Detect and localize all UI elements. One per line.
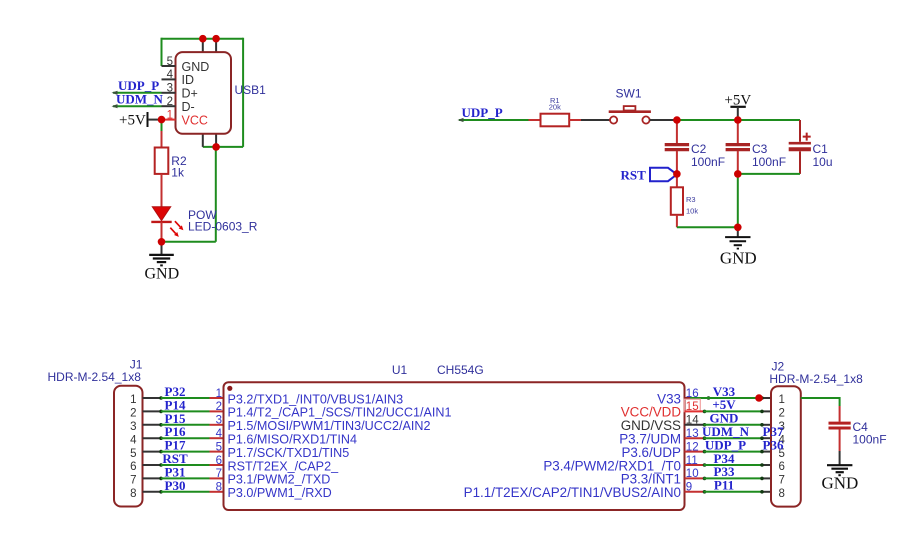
wire: red U1 pin 5 stub <box>210 451 224 453</box>
wire: red U1 pin 2 stub <box>210 410 224 412</box>
wire: black R1 to SW1 <box>581 119 610 121</box>
net label V33 <box>713 384 736 399</box>
wire: red U1 pin 6 stub <box>210 464 224 466</box>
U1 left pin name P3.1 <box>228 473 331 487</box>
wire: green net P31 J1 to U1 <box>161 477 210 479</box>
USB1 pin name ID <box>182 73 195 87</box>
J2 pin number 3 <box>779 421 785 433</box>
svg-text:UDM_N: UDM_N <box>116 92 164 107</box>
wire: green net GND U1 to J2 <box>704 424 763 426</box>
value 10k <box>686 207 698 216</box>
net label P37 <box>763 424 784 439</box>
U1 pin number 1 <box>216 388 222 400</box>
value 10u <box>813 155 833 169</box>
connector J2 designator <box>772 360 785 374</box>
IC U1 body <box>224 382 685 510</box>
connector USB1 body <box>176 52 232 134</box>
wire: U1 pin 16 stub (right) <box>685 396 711 400</box>
junction: SW1/C2 node <box>673 116 681 124</box>
svg-text:100nF: 100nF <box>853 433 887 447</box>
wire: green net P14 J1 to U1 <box>161 410 210 412</box>
svg-text:2: 2 <box>779 408 785 420</box>
wire: green net P32 J1 to U1 <box>161 397 210 399</box>
svg-text:6: 6 <box>216 455 222 467</box>
net label P36 <box>763 437 784 452</box>
label C2 <box>691 142 707 156</box>
svg-text:7: 7 <box>779 475 785 487</box>
U1 left pin name P3.2 <box>228 392 404 406</box>
wire: green net +5V U1 to J2 <box>704 410 763 412</box>
svg-text:7: 7 <box>130 475 136 487</box>
svg-text:+5V: +5V <box>119 113 146 129</box>
junction: +5V / VCC / R2 node <box>158 116 166 124</box>
U1 pin number 6 <box>216 455 222 467</box>
value 100nF (C4) <box>853 433 887 447</box>
junction: C3 bottom node <box>734 170 742 178</box>
wire: green net RST J1 to U1 <box>161 464 210 466</box>
wire: red U1 pin 7 stub <box>210 477 224 479</box>
USB1 pin number 2 <box>167 96 173 108</box>
U1 pin number 7 <box>216 468 222 480</box>
wire: green net P17 J1 to U1 <box>161 451 210 453</box>
svg-text:1: 1 <box>216 388 222 400</box>
ground symbol GND (left) <box>149 242 174 266</box>
label U1 <box>392 363 408 377</box>
U1 pin number 13 <box>686 428 699 440</box>
svg-text:RST/T2EX_/CAP2_: RST/T2EX_/CAP2_ <box>228 459 340 473</box>
svg-text:1k: 1k <box>171 165 185 179</box>
svg-text:C1: C1 <box>813 142 829 156</box>
J2 pin number 5 <box>779 448 785 460</box>
wire: green J2 pin1 to C4 <box>801 397 840 406</box>
J1 pin number 7 <box>130 475 136 487</box>
svg-text:1: 1 <box>779 394 785 406</box>
wire: red RST node to R3 <box>676 174 678 187</box>
wire: green net UDP_P U1 to J2 <box>704 451 763 453</box>
svg-text:5: 5 <box>130 448 136 460</box>
net label P33 <box>714 464 735 479</box>
svg-text:4: 4 <box>167 69 174 81</box>
svg-text:D-: D- <box>182 100 195 114</box>
svg-text:SW1: SW1 <box>616 86 642 100</box>
U1 right pin name P3.4/PWM2/RXD1_/T0 <box>543 458 681 473</box>
wire: U1 pin 10 stub (right) <box>685 477 707 481</box>
wire: U1 pin 14 stub (right) <box>685 423 707 427</box>
J2 pin 3 stub <box>760 423 771 427</box>
wire: green net V33 U1 to J2 <box>690 397 762 399</box>
wire: U1 pin 13 stub (right) <box>685 436 707 440</box>
net GND text (right section) <box>720 249 757 268</box>
J2 pin 4 stub <box>760 436 771 440</box>
J1 pin number 3 <box>130 421 136 433</box>
U1 pin number 16 <box>686 388 699 400</box>
wire: green net P16 J1 to U1 <box>161 437 210 439</box>
U1 right pin name P3.3/INT1 <box>621 472 681 487</box>
svg-text:1: 1 <box>130 394 136 406</box>
wire: U1 pin 11 stub (right) <box>685 463 707 467</box>
net label UDP_P <box>705 437 746 452</box>
wire: red U1 pin 8 stub <box>210 491 224 493</box>
capacitor C2 <box>665 120 689 174</box>
svg-text:RST: RST <box>621 168 647 183</box>
J1 pin 8 stub <box>143 490 163 494</box>
J2 pin number 8 <box>779 488 785 500</box>
switch SW1 (pushbutton) <box>609 106 651 124</box>
net label P15 <box>165 411 186 426</box>
svg-text:3: 3 <box>130 421 136 433</box>
svg-text:UDP_P: UDP_P <box>462 105 503 120</box>
J1 pin number 5 <box>130 448 136 460</box>
svg-text:P11: P11 <box>714 478 734 493</box>
resistor R2 body <box>155 148 169 174</box>
junction: top shell dot left <box>199 35 207 43</box>
svg-text:6: 6 <box>130 461 136 473</box>
wire: green net P15 J1 to U1 <box>161 424 210 426</box>
U1 left pin name P1.4 <box>228 406 452 420</box>
net label +5V <box>712 397 736 412</box>
net UDP_P (left) <box>118 78 159 93</box>
svg-text:8: 8 <box>130 488 136 500</box>
J2 pin 5 stub <box>760 450 771 454</box>
wire: green from shell junction down to LED cathode net <box>215 147 217 242</box>
J1 pin 3 stub <box>143 423 163 427</box>
USB1 pin name VCC <box>182 113 208 127</box>
svg-text:GND: GND <box>145 266 180 283</box>
U1 right pin name GND/VSS <box>621 418 681 433</box>
J1 pin 5 stub <box>143 450 163 454</box>
svg-text:8: 8 <box>779 488 785 500</box>
USB1 pin 5 stub <box>162 65 176 67</box>
U1 pin number 4 <box>216 428 223 440</box>
svg-text:P1.6/MISO/RXD1/TIN4: P1.6/MISO/RXD1/TIN4 <box>228 433 357 447</box>
wire: black SW1 to C2 node <box>650 119 677 121</box>
net UDP_P (right section) <box>462 105 503 120</box>
USB1 pin 2 stub <box>162 105 176 107</box>
value CH554G <box>437 363 484 377</box>
USB1 pin number 3 <box>167 83 173 95</box>
label SW1 <box>616 86 642 100</box>
net label P30 <box>165 478 186 493</box>
wire: red R2 to LED anode <box>161 174 163 208</box>
wire: red U1 pin 4 stub <box>210 437 224 439</box>
value 100nF (C2) <box>691 155 725 169</box>
J2 pin number 1 <box>779 394 785 406</box>
svg-text:8: 8 <box>216 482 222 494</box>
ground symbol GND (J2/C4) <box>827 451 852 475</box>
U1 pin number 9 <box>686 482 692 494</box>
J2 pin number 6 <box>779 461 785 473</box>
svg-text:VCC: VCC <box>182 113 208 127</box>
J1 pin 2 stub <box>143 410 163 414</box>
U1 pin number 11 <box>686 455 698 467</box>
svg-text:R3: R3 <box>686 195 696 204</box>
label C4 <box>853 420 869 434</box>
svg-text:2: 2 <box>216 401 222 413</box>
svg-text:10u: 10u <box>813 155 833 169</box>
svg-text:3: 3 <box>167 83 173 95</box>
U1 right pin name V33 <box>657 391 681 406</box>
U1 pin number 2 <box>216 401 222 413</box>
J1 pin 4 stub <box>143 436 163 440</box>
svg-text:P3.2/TXD1_/INT0/VBUS1/AIN3: P3.2/TXD1_/INT0/VBUS1/AIN3 <box>228 392 404 406</box>
wire: red U1 pin 1 stub <box>210 397 224 399</box>
U1 pin number 12 <box>686 441 699 453</box>
svg-text:5: 5 <box>167 56 173 68</box>
svg-text:4: 4 <box>216 428 223 440</box>
connector J1 value HDR-M-2.54_1x8 <box>48 370 142 384</box>
net UDM_N (left) <box>116 92 164 107</box>
label R3 <box>686 195 696 204</box>
wire: green net P30 J1 to U1 <box>161 491 210 493</box>
junction: bottom shell dot <box>212 143 220 151</box>
junction: GND node right section <box>734 224 742 232</box>
wire: green UDM_N to USB pin 2 <box>112 104 162 108</box>
svg-text:P1.1/T2EX/CAP2/TIN1/VBUS2/AIN0: P1.1/T2EX/CAP2/TIN1/VBUS2/AIN0 <box>464 485 681 500</box>
J1 pin 6 stub <box>143 463 163 467</box>
wire: red LED cathode to ground node <box>161 222 163 242</box>
capacitor C1 (polarized) <box>789 120 811 174</box>
wire: green UDP_P to USB pin 3 <box>112 91 162 95</box>
svg-text:2: 2 <box>167 96 173 108</box>
capacitor C4 <box>829 406 851 451</box>
svg-text:GND: GND <box>182 60 210 74</box>
svg-text:100nF: 100nF <box>691 155 725 169</box>
wire: red R3 bottom stub <box>676 215 678 228</box>
label C3 <box>752 142 768 156</box>
LED POW (diode triangle + cathode bar + emission arrows) <box>151 207 183 237</box>
J2 pin 1 stub <box>760 396 771 400</box>
wire: green top loop over USB1 <box>162 38 244 147</box>
U1 pin number 14 <box>686 415 699 427</box>
netflag RST <box>621 168 677 183</box>
svg-text:U1: U1 <box>392 363 408 377</box>
net label P14 <box>165 397 186 412</box>
value 1k <box>171 165 185 179</box>
junction: V33 / J2 pin1 / C4 node <box>755 394 763 402</box>
svg-text:P36: P36 <box>763 437 784 452</box>
svg-text:P3.1/PWM2_/TXD: P3.1/PWM2_/TXD <box>228 473 331 487</box>
wire: green UDP_P to R1 <box>458 118 529 122</box>
label POW <box>188 208 217 222</box>
svg-text:4: 4 <box>130 434 137 446</box>
USB1 pin 3 stub <box>162 92 176 94</box>
wire: green R3 to GND node <box>677 226 738 228</box>
capacitor C3 <box>726 120 750 174</box>
net label P11 <box>714 478 734 493</box>
U1 pin number 3 <box>216 415 222 427</box>
net label P32 <box>165 384 186 399</box>
svg-text:USB1: USB1 <box>235 83 267 97</box>
net GND text (left) <box>145 266 180 283</box>
wire: red U1 pin 3 stub <box>210 424 224 426</box>
svg-text:7: 7 <box>216 468 222 480</box>
J1 pin number 2 <box>130 408 136 420</box>
U1 right pin name P3.7/UDM <box>619 432 681 447</box>
U1 pin number 10 <box>686 468 699 480</box>
U1 right pin name P1.1/T2EX/CAP2/TIN1/VBUS2/AIN0 <box>464 485 681 500</box>
label R2 <box>171 154 187 168</box>
svg-text:C2: C2 <box>691 142 707 156</box>
USB1 pin number 5 <box>167 56 173 68</box>
USB1 pin name GND <box>182 60 210 74</box>
J2 pin number 7 <box>779 475 785 487</box>
junction: RST node <box>673 170 681 178</box>
J1 pin 1 stub <box>143 396 163 400</box>
ground symbol GND (right section) <box>725 227 750 248</box>
svg-text:P1.5/MOSI/PWM1/TIN3/UCC2/AIN2: P1.5/MOSI/PWM1/TIN3/UCC2/AIN2 <box>228 419 431 433</box>
svg-text:2: 2 <box>130 408 136 420</box>
value 100nF (C3) <box>752 155 786 169</box>
USB1 pin 4 stub <box>162 78 176 80</box>
resistor R1 body <box>541 114 570 127</box>
U1 left pin name RST <box>228 459 340 473</box>
resistor R3 body <box>671 187 683 215</box>
J1 pin number 4 <box>130 434 137 446</box>
power flag +5V (right) <box>724 93 751 121</box>
wire: green C3 node to GND node <box>737 174 739 227</box>
svg-text:100nF: 100nF <box>752 155 786 169</box>
wire: red R1 right stub <box>569 119 581 121</box>
wire: black stub USB1 shell top-right pin <box>215 39 217 52</box>
svg-text:10k: 10k <box>686 207 698 216</box>
wire: green/red from +5V node down to R2 <box>161 120 163 148</box>
J2 pin 7 stub <box>760 477 771 481</box>
junction: top shell dot right <box>212 35 220 43</box>
wire: red R1 left stub <box>529 119 541 121</box>
U1 left pin name P3.0 <box>228 486 332 500</box>
J1 pin 7 stub <box>143 477 163 481</box>
U1 pin number 15 <box>684 399 700 413</box>
USB1 pin number 4 <box>167 69 174 81</box>
connector J2 body <box>771 386 801 506</box>
wire: U1 pin 12 stub (right) <box>685 450 707 454</box>
U1 right pin name P3.6/UDP <box>621 445 681 460</box>
J2 pin 6 stub <box>760 463 771 467</box>
value 20k <box>549 103 561 112</box>
net label RST <box>162 451 188 466</box>
USB1 pin number 1 <box>167 109 173 121</box>
value LED-0603_R <box>188 220 258 234</box>
svg-text:20k: 20k <box>549 103 561 112</box>
svg-text:CH554G: CH554G <box>437 363 484 377</box>
svg-text:P1.7/SCK/TXD1/TIN5: P1.7/SCK/TXD1/TIN5 <box>228 446 350 460</box>
net label P17 <box>165 438 186 453</box>
connector J1 body <box>114 386 143 507</box>
wire: U1 pin 9 stub (right) <box>685 490 707 494</box>
svg-text:1: 1 <box>167 109 173 121</box>
label C1 <box>813 142 829 156</box>
wire: green C2 node to +5V node to C1 <box>677 119 800 121</box>
label R1 <box>550 96 560 105</box>
label USB1 <box>235 83 267 97</box>
net GND text (J2/C4) <box>821 473 858 492</box>
U1 left pin name P1.6 <box>228 433 357 447</box>
net label GND <box>710 411 739 426</box>
U1 left pin name P1.7 <box>228 446 350 460</box>
wire: green net UDM_N U1 to J2 <box>704 437 763 439</box>
junction: +5V node <box>734 116 742 124</box>
U1 left pin name P1.5 <box>228 419 431 433</box>
U1 pin number 5 <box>216 441 222 453</box>
svg-text:P3.0/PWM1_/RXD: P3.0/PWM1_/RXD <box>228 486 332 500</box>
svg-text:D+: D+ <box>182 87 198 101</box>
J2 pin number 4 <box>779 434 786 446</box>
wire: U1 pin 15 stub (right) <box>685 410 707 414</box>
J2 pin 2 stub <box>760 410 771 414</box>
svg-text:3: 3 <box>216 415 222 427</box>
svg-text:P1.4/T2_/CAP1_/SCS/TIN2/UCC1/A: P1.4/T2_/CAP1_/SCS/TIN2/UCC1/AIN1 <box>228 406 452 420</box>
USB1 pin 1 stub <box>162 119 176 121</box>
wire: black stub USB1 shell bottom-right pin <box>215 134 217 147</box>
svg-text:5: 5 <box>216 441 222 453</box>
U1 pin-1 indicator dot <box>227 386 232 391</box>
wire: green net P33 U1 to J2 <box>704 477 763 479</box>
U1 pin number 8 <box>216 482 222 494</box>
svg-text:6: 6 <box>779 461 785 473</box>
svg-text:GND: GND <box>720 249 757 268</box>
connector J2 value HDR-M-2.54_1x8 <box>769 372 863 386</box>
net label P16 <box>165 424 186 439</box>
wire: black stub USB1 shell top-left pin <box>202 39 204 52</box>
J2 pin number 2 <box>779 408 785 420</box>
wire: green C1 bottom to C3 node <box>738 173 800 175</box>
svg-text:LED-0603_R: LED-0603_R <box>188 220 258 234</box>
svg-text:C3: C3 <box>752 142 768 156</box>
net label P31 <box>165 464 186 479</box>
net label UDM_N <box>702 424 750 439</box>
connector J1 designator <box>130 358 143 372</box>
wire: green LED node to USB shell <box>162 241 216 243</box>
U1 right pin name VCC/VDD <box>621 405 682 420</box>
J1 pin number 8 <box>130 488 136 500</box>
J1 pin number 6 <box>130 461 136 473</box>
svg-text:HDR-M-2.54_1x8: HDR-M-2.54_1x8 <box>769 372 863 386</box>
power flag +5V (left) <box>119 112 148 129</box>
USB1 pin name D- <box>182 100 195 114</box>
net label P34 <box>714 451 735 466</box>
wire: black stub USB1 shell bottom-left pin <box>202 134 204 147</box>
svg-text:GND: GND <box>821 473 858 492</box>
J2 pin 8 stub <box>760 490 771 494</box>
svg-text:P30: P30 <box>165 478 186 493</box>
wire: green net P11 U1 to J2 <box>704 491 763 493</box>
USB1 pin name D+ <box>182 87 198 101</box>
wire: green net P34 U1 to J2 <box>704 464 763 466</box>
junction: LED/GND node <box>158 238 166 246</box>
svg-text:HDR-M-2.54_1x8: HDR-M-2.54_1x8 <box>48 370 142 384</box>
wire: black +5V flag to junction <box>148 119 162 121</box>
J1 pin number 1 <box>130 394 136 406</box>
svg-text:ID: ID <box>182 73 195 87</box>
